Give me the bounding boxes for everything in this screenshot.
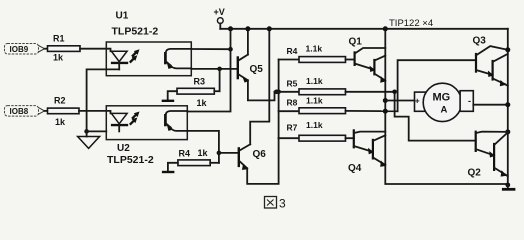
wire R2 to U2 LED: [79, 111, 111, 114]
wire to Q6 base: [219, 152, 239, 154]
svg-text:R4: R4: [179, 149, 191, 159]
svg-text:1k: 1k: [55, 117, 66, 127]
label U1 TLP521-2: [112, 26, 159, 38]
svg-text:TLP521-2: TLP521-2: [112, 26, 159, 38]
junction U2 cathode node: [84, 129, 89, 134]
wire R4 left lead to ground tick: [168, 163, 178, 172]
label Q1: [349, 37, 363, 48]
label U2 TLP521-2: [107, 154, 154, 166]
svg-text:Q4: Q4: [348, 163, 362, 174]
resistor R7 1.1k: [279, 120, 354, 141]
transistor Q2 darlington: [476, 131, 508, 177]
svg-text:Q3: Q3: [473, 36, 487, 47]
wire Q6 collector up to rail: [250, 29, 269, 145]
junction R3 tap: [217, 67, 222, 72]
svg-text:1.1k: 1.1k: [306, 96, 323, 106]
svg-text:Q1: Q1: [349, 37, 363, 48]
svg-text:3: 3: [279, 197, 286, 211]
resistor R3: [177, 77, 214, 109]
svg-text:R5: R5: [287, 79, 298, 89]
resistor R4 1.1k: [279, 44, 355, 63]
label U2: [117, 143, 130, 154]
label Q6: [253, 149, 267, 160]
motor terminal right box: [460, 91, 473, 112]
wire R8 to Q3 base riser: [398, 60, 476, 111]
svg-text:1.1k: 1.1k: [306, 44, 323, 54]
svg-text:1.1k: 1.1k: [306, 120, 323, 130]
right leg vertical Q3-Q2: [507, 29, 509, 185]
LED U1 light arrows: [130, 49, 140, 62]
transistor Q6: [239, 144, 250, 170]
svg-text:-: -: [468, 96, 471, 106]
label TIP122 x4: [389, 18, 433, 29]
resistor R2: [48, 96, 80, 128]
resistor R5 1.1k: [275, 76, 395, 95]
wire Q5 collector to rail: [247, 29, 249, 55]
wire U1 LED cathode to ground rail: [87, 69, 120, 131]
wire R5 to Q2 base jog: [395, 92, 476, 141]
resistor R1: [48, 34, 81, 63]
wire stub to ground triangle: [86, 131, 88, 136]
svg-text:IOB9: IOB9: [10, 45, 29, 54]
svg-text:R3: R3: [194, 77, 206, 87]
wire IOB8 to R2: [45, 110, 48, 112]
svg-text:MG: MG: [433, 92, 451, 104]
+V supply terminal: [214, 7, 225, 29]
svg-text:A: A: [441, 105, 448, 116]
transistor Q3 darlington: [476, 46, 508, 86]
junction Q2 collector: [505, 129, 510, 134]
resistor R8 1.1k: [279, 96, 398, 114]
ground tick R4: [162, 171, 175, 173]
net flag IOB9: [5, 44, 45, 55]
wire R3 left lead to ground tick: [168, 91, 177, 100]
net flag IOB8: [5, 106, 45, 117]
svg-text:+V: +V: [214, 7, 225, 17]
svg-text:U1: U1: [116, 11, 129, 22]
ground symbol right: [502, 185, 516, 189]
motor M circle: [423, 83, 461, 121]
wire R3 right lead: [214, 90, 219, 92]
svg-text:1.1k: 1.1k: [306, 76, 323, 86]
rail junction dots: [228, 26, 388, 31]
wire Q6 emitter to bus bottom: [247, 138, 278, 184]
base bus vertical: [278, 60, 280, 139]
svg-text:R4: R4: [287, 46, 298, 56]
svg-text:Q5: Q5: [250, 64, 264, 75]
wire R3 riser: [219, 69, 221, 91]
svg-text:Q2: Q2: [468, 168, 482, 179]
svg-text:+: +: [415, 96, 420, 106]
junction bus R5: [276, 90, 281, 95]
phototransistor U2: [165, 111, 187, 131]
label U1: [116, 11, 129, 22]
svg-text:R2: R2: [54, 96, 66, 106]
wire R4 to Q1 base handled, junction leg1 motor: [383, 98, 388, 103]
wire R1 to U1 LED: [80, 49, 111, 52]
svg-text:1k: 1k: [198, 148, 209, 158]
opto U2 box: [106, 106, 187, 140]
motor terminal left box: [415, 92, 427, 111]
ground tick R3: [162, 100, 175, 102]
wire U1 emitter to Q5 base: [191, 68, 237, 70]
wire motor left: [385, 100, 414, 102]
svg-text:R1: R1: [53, 34, 65, 44]
svg-text:TLP521-2: TLP521-2: [107, 154, 154, 166]
junction U1 collector: [228, 47, 233, 52]
power rail +V: [220, 28, 508, 30]
resistor R4 1k: [178, 148, 210, 166]
junction bus Q5 emitter: [274, 90, 279, 95]
svg-text:TIP122 ×4: TIP122 ×4: [389, 18, 433, 29]
wire motor right: [473, 104, 508, 106]
junction leg1 R8: [383, 109, 388, 114]
wire U2 emitter to Q6 base chain: [187, 131, 219, 163]
transistor Q4 darlington: [354, 129, 387, 167]
svg-text:Q6: Q6: [253, 149, 267, 160]
svg-text:IOB8: IOB8: [10, 107, 29, 116]
svg-text:1k: 1k: [53, 53, 64, 63]
wire Q5 emitter down and right to bus: [248, 80, 275, 100]
junction ground node: [505, 183, 510, 188]
ground triangle: [78, 137, 100, 149]
transistor Q1 darlington: [355, 48, 387, 83]
wire node to U2 cathode pin: [87, 130, 107, 132]
svg-text:U2: U2: [117, 143, 130, 154]
wire +V drop to opto collectors: [187, 29, 230, 112]
label Q3: [473, 36, 487, 47]
transistor Q5: [238, 55, 249, 83]
label Q4: [348, 163, 362, 174]
phototransistor U1: [165, 49, 191, 69]
wire IOB9 to R1: [45, 48, 48, 50]
svg-text:1k: 1k: [197, 98, 208, 108]
svg-text:R7: R7: [287, 123, 298, 133]
wire U1 collector: [191, 48, 230, 50]
junction motor right: [505, 102, 510, 107]
junction Q6 base tap: [217, 151, 222, 156]
label Q2: [468, 168, 482, 179]
op-to U1 box: [106, 42, 191, 76]
left leg vertical Q1-Q4: [385, 29, 508, 184]
junction R5 wire end: [392, 90, 397, 95]
wire R4 right lead: [210, 162, 219, 164]
svg-text:R8: R8: [287, 98, 298, 108]
LED U2 light arrows: [130, 112, 140, 125]
junction Q3 collector: [505, 47, 510, 52]
caption figure 3: [265, 197, 287, 211]
LED D1 inside U1: [111, 51, 128, 69]
LED D2 inside U2: [111, 113, 128, 131]
label Q5: [250, 64, 264, 75]
